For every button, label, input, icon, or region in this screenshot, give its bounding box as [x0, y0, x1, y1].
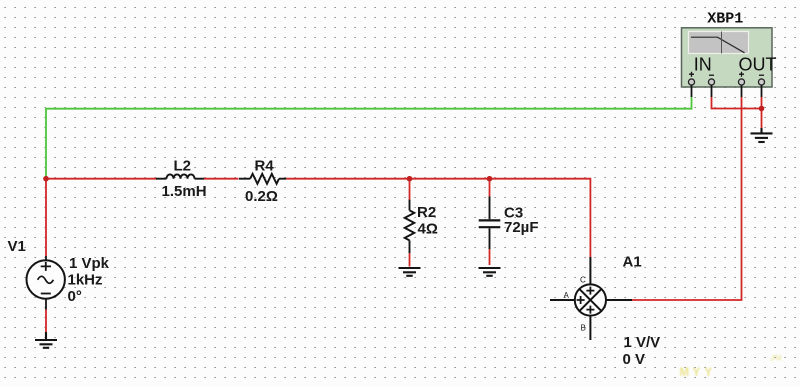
svg-text:R4: R4 [255, 157, 275, 174]
resistor R2 [405, 200, 415, 253]
junction dot at R2 node [407, 176, 413, 182]
wire red C3 bottom [489, 249, 491, 265]
svg-text:IN: IN [694, 55, 712, 75]
junction dot at XBP1 ground node [759, 106, 765, 112]
svg-text:M: M [680, 367, 690, 379]
svg-text:,ru: ,ru [770, 352, 782, 362]
wire red A1 output to XBP1 OUT+ [632, 97, 742, 300]
resistor R4 [239, 174, 286, 184]
wire red R2 top [409, 179, 411, 200]
svg-text:1.5mH: 1.5mH [162, 183, 207, 200]
junction dot at C3 node [487, 176, 493, 182]
terminal IN- [708, 79, 714, 85]
wire red XBP1 IN- down and right [712, 97, 762, 109]
junction dot at V1 node [43, 176, 49, 182]
svg-text:0.2Ω: 0.2Ω [245, 188, 278, 205]
ground under XBP1 OUT- [751, 128, 773, 142]
terminal OUT- [758, 79, 764, 85]
wire red V1 top [45, 179, 47, 256]
wire red R2 bottom [409, 253, 411, 267]
terminal stubs [692, 85, 762, 97]
svg-text:Y: Y [705, 367, 713, 379]
svg-text:A1: A1 [623, 253, 642, 270]
svg-text:A: A [564, 291, 570, 300]
svg-text:0°: 0° [68, 288, 82, 305]
wire red R4 to A1 corner [286, 179, 590, 257]
svg-text:Y: Y [693, 367, 701, 379]
svg-text:V1: V1 [8, 238, 26, 255]
ground under V1 [35, 332, 57, 348]
svg-text:C: C [580, 276, 586, 285]
svg-text:72µF: 72µF [504, 219, 539, 236]
wire red V1 bottom to ground [45, 310, 47, 333]
ground under C3 [479, 268, 501, 276]
terminal IN+ [688, 79, 694, 85]
wire red L2 to R4 [204, 178, 239, 180]
source V1 [27, 256, 65, 310]
summer A1 [550, 257, 632, 340]
svg-text:4Ω: 4Ω [418, 221, 438, 238]
ground under R2 [399, 268, 421, 276]
svg-text:R2: R2 [417, 204, 436, 221]
watermark [680, 367, 713, 379]
inductor L2 [156, 174, 204, 178]
wire red C3 top [489, 179, 491, 197]
wire red XBP1 OUT- to ground [761, 97, 763, 129]
polarity marks [689, 72, 764, 77]
bode plotter XBP1 body [682, 28, 773, 87]
svg-text:1 V/V: 1 V/V [624, 334, 661, 351]
terminal OUT+ [738, 79, 744, 85]
svg-text:L2: L2 [174, 157, 192, 174]
svg-text:OUT: OUT [739, 55, 777, 75]
wire green V1 to XBP1 IN+ [46, 97, 692, 179]
wire main red horizontal V1 to L2 [46, 178, 157, 180]
svg-text:0 V: 0 V [623, 351, 646, 368]
svg-text:1kHz: 1kHz [68, 272, 103, 289]
capacitor C3 [479, 197, 501, 250]
svg-text:1 Vpk: 1 Vpk [69, 255, 110, 272]
svg-text:XBP1: XBP1 [707, 11, 743, 28]
svg-text:B: B [581, 324, 586, 333]
